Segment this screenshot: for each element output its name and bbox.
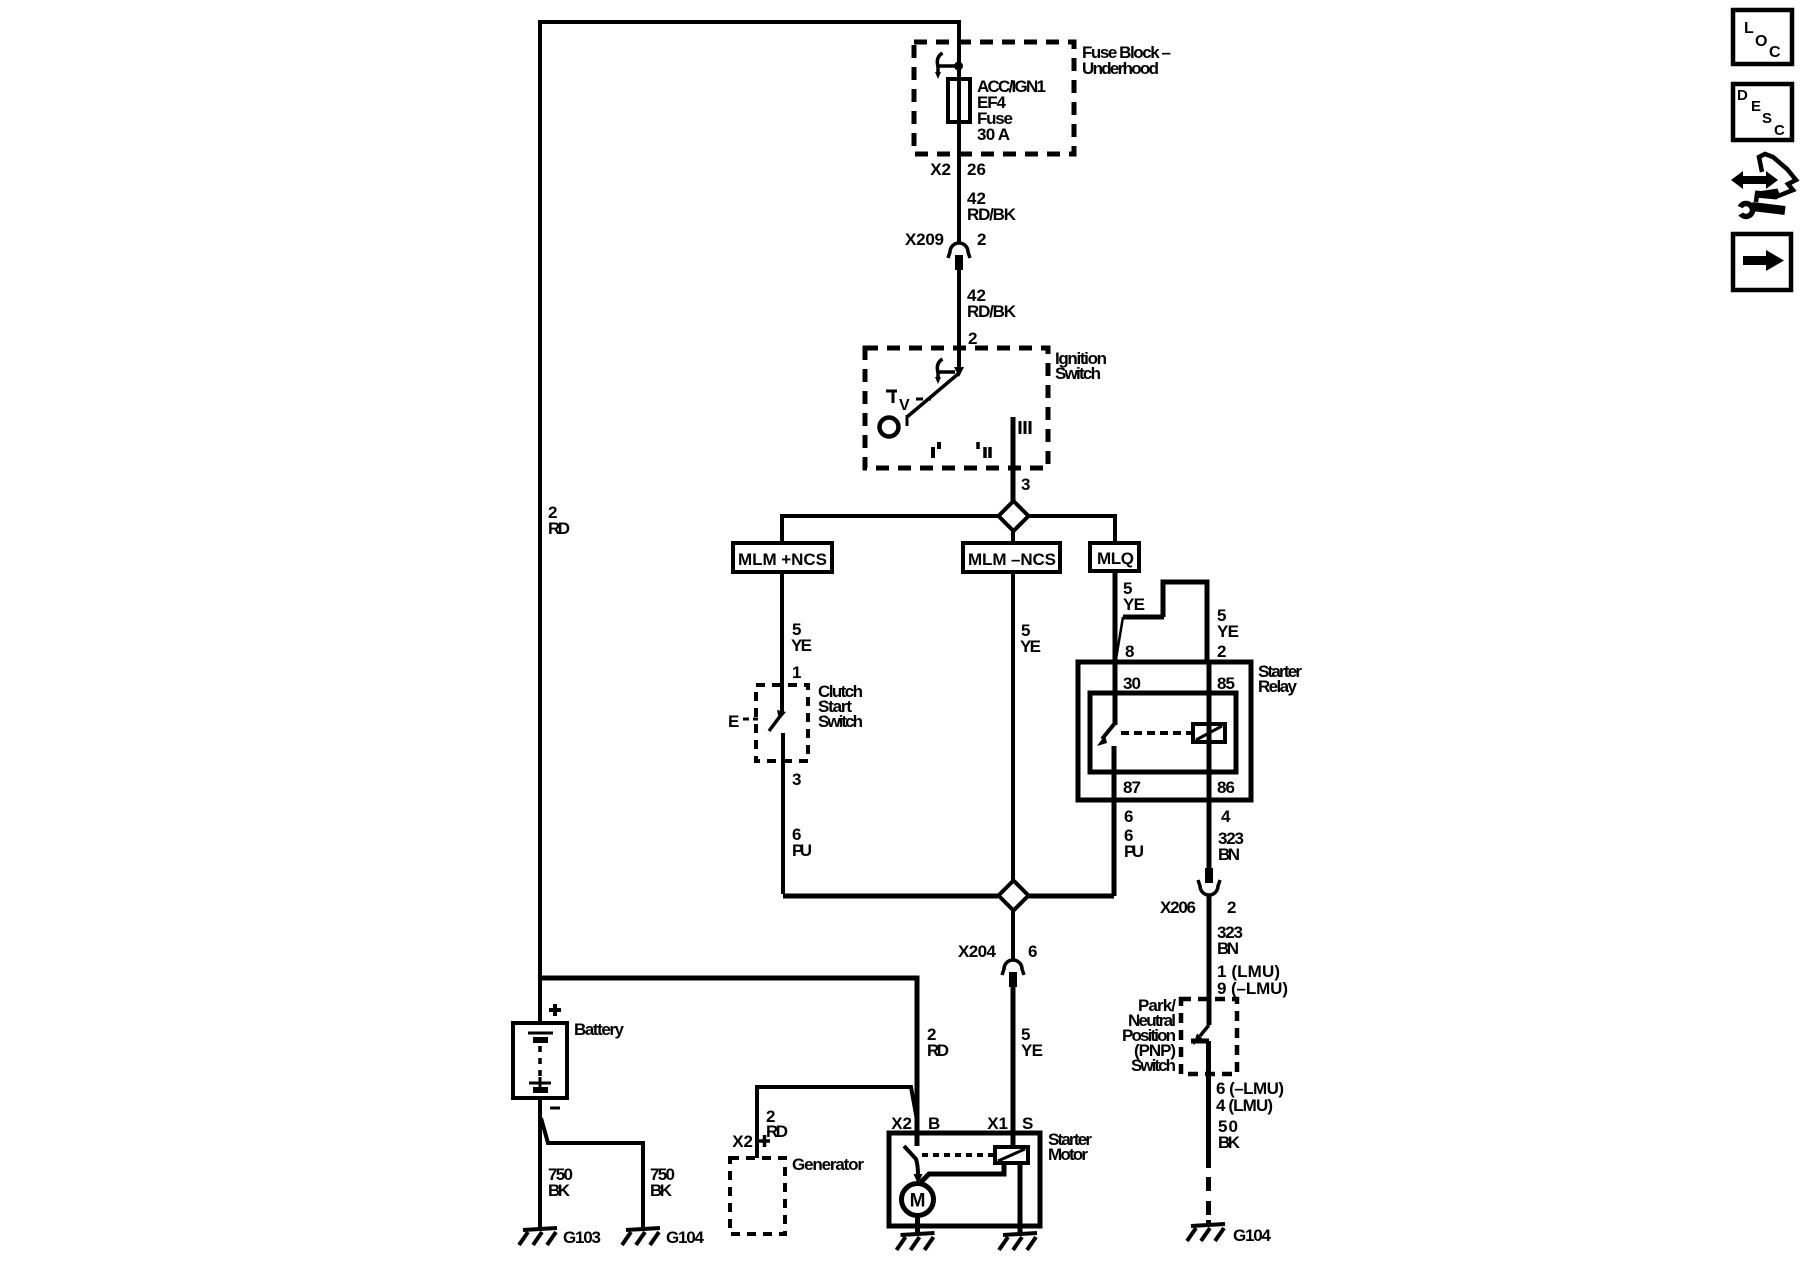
ignition position IV mark <box>886 391 897 403</box>
ground G104 right <box>1187 1224 1225 1241</box>
starter motor pin labels X2 B X1 S <box>891 1114 1033 1133</box>
svg-text:Generator: Generator <box>792 1155 864 1174</box>
wire 5 YE from MLM -NCS down <box>1011 572 1015 880</box>
connector box MLM +NCS <box>733 543 832 572</box>
relay mechanical dashed link <box>1121 731 1191 735</box>
svg-text:4: 4 <box>1221 807 1231 826</box>
ignition switch blade arrowhead <box>954 367 964 377</box>
label 50 BK <box>1218 1117 1241 1152</box>
relay coil slash <box>1196 726 1222 740</box>
svg-text:Relay: Relay <box>1258 677 1298 696</box>
label 5 YE starter <box>1021 1025 1043 1060</box>
svg-text:YE: YE <box>791 636 812 655</box>
splice diamond S2 <box>999 881 1029 911</box>
svg-text:9 (–LMU): 9 (–LMU) <box>1217 979 1288 998</box>
PNP switch top pin <box>1207 999 1212 1025</box>
svg-text:BK: BK <box>548 1181 571 1200</box>
wire 2 RD battery to starter B <box>540 978 917 1133</box>
starter solenoid blade <box>904 1146 918 1175</box>
svg-text:PU: PU <box>1124 842 1144 861</box>
ground G104 left <box>622 1228 660 1245</box>
wire 42 RD/BK drop into fuse block <box>957 20 961 243</box>
svg-text:RD/BK: RD/BK <box>967 205 1017 224</box>
svg-text:4 (LMU): 4 (LMU) <box>1216 1096 1273 1115</box>
PNP bottom contact <box>1191 1041 1209 1168</box>
junction dot fuse block clip <box>954 62 963 71</box>
label 2 RD starter feed <box>927 1025 949 1060</box>
wire 323 BN to PNP switch <box>1207 895 1212 999</box>
relay switch blade <box>1102 723 1115 739</box>
wire step horizontal to junction <box>1123 615 1164 620</box>
svg-text:MLQ: MLQ <box>1097 549 1134 568</box>
starter contact arm <box>921 1163 1004 1182</box>
svg-text:X2: X2 <box>891 1114 912 1133</box>
svg-text:C: C <box>1769 44 1781 61</box>
ignition switch blade <box>907 374 958 417</box>
icon arrow box <box>1733 234 1791 290</box>
icon electrical repair bottom bar <box>1755 194 1777 196</box>
starter blade arrowhead <box>914 1174 923 1184</box>
label Starter Motor <box>1048 1130 1092 1164</box>
svg-text:E: E <box>1751 98 1761 115</box>
icon DESC box <box>1733 84 1792 140</box>
svg-text:Switch: Switch <box>818 712 863 731</box>
wire 42 RD/BK to ignition switch <box>957 270 961 371</box>
wire top horizontal feed <box>538 20 959 24</box>
label 323 BN relay <box>1218 829 1244 864</box>
label 750 BK left <box>548 1165 573 1200</box>
svg-text:Underhood: Underhood <box>1082 59 1159 78</box>
PNP switch blade <box>1200 1025 1209 1036</box>
connector box MLM -NCS <box>963 543 1060 572</box>
ignition switch blade end stub <box>906 415 909 426</box>
generator dashed box <box>730 1158 785 1234</box>
svg-text:G103: G103 <box>563 1228 601 1247</box>
ground starter motor left <box>897 1233 935 1250</box>
battery internal plates <box>528 1033 553 1090</box>
ignition position I tick <box>933 442 939 458</box>
svg-text:26: 26 <box>967 160 986 179</box>
svg-text:3: 3 <box>1021 475 1030 494</box>
svg-text:E: E <box>728 712 739 731</box>
relay coil box <box>1193 724 1225 742</box>
svg-text:6: 6 <box>1028 942 1037 961</box>
ignition switch pivot circle <box>880 418 899 437</box>
svg-text:BN: BN <box>1218 845 1240 864</box>
svg-text:X206: X206 <box>1160 898 1196 917</box>
svg-text:V: V <box>899 397 910 414</box>
wire 5 YE from MLQ to relay pin 30 <box>1113 571 1118 725</box>
wire 2 RD generator output <box>757 1087 917 1158</box>
fuse ACC/IGN1 EF4 30A <box>948 79 970 122</box>
starter solenoid coil slash <box>998 1149 1025 1161</box>
label Ignition Switch <box>1055 349 1107 383</box>
label 6 PU clutch <box>792 825 812 860</box>
clutch start switch dashed box <box>756 685 808 761</box>
svg-text:X204: X204 <box>958 942 997 961</box>
icon DESC letters <box>1737 87 1785 139</box>
svg-text:X1: X1 <box>987 1114 1008 1133</box>
clutch switch blade <box>769 715 781 731</box>
park neutral position switch dashed box <box>1181 999 1237 1074</box>
wire 50 BK dashed to ground <box>1206 1177 1211 1224</box>
connector clip in fuse block <box>935 53 957 79</box>
label Park/Neutral Position (PNP) Switch <box>1122 996 1176 1075</box>
svg-text:30: 30 <box>1123 674 1141 693</box>
wire S1 to MLM -NCS <box>1011 531 1015 543</box>
svg-text:C: C <box>1774 122 1785 139</box>
icon right arrow <box>1743 250 1784 271</box>
svg-text:Switch: Switch <box>1131 1056 1176 1075</box>
label 42 RD/BK upper <box>967 189 1017 224</box>
svg-text:S: S <box>1022 1114 1033 1133</box>
connector X209 symbol <box>948 243 970 270</box>
icon LOC letters <box>1744 20 1781 61</box>
icon electrical repair wrench <box>1733 204 1785 219</box>
svg-text:PU: PU <box>792 841 812 860</box>
svg-text:85: 85 <box>1217 674 1235 693</box>
wire relay pin 87 down to bus <box>1112 746 1117 896</box>
ground G103 <box>519 1228 557 1245</box>
svg-text:3: 3 <box>792 770 801 789</box>
starter motor M circle <box>902 1184 934 1216</box>
clutch switch bottom pin wire 6 PU <box>781 733 785 894</box>
label Clutch Start Switch <box>818 682 863 731</box>
starter relay outer box <box>1078 662 1251 800</box>
svg-text:RD: RD <box>548 519 570 538</box>
svg-text:8: 8 <box>1125 642 1134 661</box>
pin label 1 (LMU) 9 (-LMU) <box>1217 962 1288 998</box>
label 5 YE mid <box>1020 621 1041 656</box>
svg-text:Switch: Switch <box>1055 364 1101 383</box>
wire ignition output pin 3 <box>1011 417 1016 501</box>
starter relay inner box <box>1090 693 1236 772</box>
label 5 YE clutch <box>791 620 812 655</box>
svg-text:RD: RD <box>766 1122 788 1141</box>
svg-text:YE: YE <box>1123 595 1145 614</box>
wire 5 YE from MLM +NCS to clutch start switch <box>780 572 784 685</box>
wire battery positive feed left vertical <box>538 22 542 1023</box>
wire solenoid to ground <box>1018 1163 1023 1233</box>
starter mechanical dashed link <box>922 1153 994 1157</box>
svg-text:87: 87 <box>1123 778 1141 797</box>
svg-text:MLM +NCS: MLM +NCS <box>738 550 827 569</box>
wire bus left to MLM +NCS <box>782 516 998 543</box>
connector X204 label and pin 6 <box>958 942 1037 961</box>
svg-text:M: M <box>910 1191 926 1212</box>
wire 5 YE to starter S terminal <box>1011 987 1016 1147</box>
svg-text:Motor: Motor <box>1048 1145 1088 1164</box>
starter B terminal pin <box>915 1133 920 1146</box>
wire branch to G104 <box>541 1118 643 1228</box>
svg-text:O: O <box>1755 33 1767 50</box>
label Fuse Block Underhood <box>1082 43 1171 78</box>
svg-text:2: 2 <box>977 230 986 249</box>
ignition position II ticks <box>978 442 990 458</box>
ignition position III bars <box>1020 421 1030 434</box>
splice diamond S1 <box>999 501 1029 531</box>
wire relay pin 85 to 86 through coil <box>1207 662 1212 800</box>
svg-text:S: S <box>1762 110 1772 127</box>
connector clip in ignition switch <box>935 359 955 384</box>
starter motor box <box>889 1133 1040 1226</box>
svg-text:B: B <box>928 1114 940 1133</box>
svg-text:BN: BN <box>1217 939 1239 958</box>
connector X204 symbol <box>1002 960 1024 987</box>
svg-text:1: 1 <box>792 663 801 682</box>
pin label X2 26 <box>930 160 986 179</box>
svg-text:X209: X209 <box>905 230 944 249</box>
svg-text:BK: BK <box>650 1181 673 1200</box>
icon LOC box <box>1733 10 1792 64</box>
starter solenoid coil box <box>995 1147 1028 1163</box>
connector X206 label and pin 2 <box>1160 898 1236 917</box>
label 2 RD left feed <box>548 503 570 538</box>
svg-text:G104: G104 <box>666 1228 705 1247</box>
connector X209 label and pin 2 <box>905 230 986 249</box>
wire 5 YE step to relay pin 85 <box>1163 582 1207 662</box>
svg-text:2: 2 <box>968 329 977 348</box>
wire battery negative to G103 <box>538 1098 542 1228</box>
icon electrical repair outline shape <box>1756 154 1796 202</box>
relay blade arrowhead <box>1097 735 1107 746</box>
label 323 BN lower <box>1217 923 1243 958</box>
label 750 BK right <box>650 1165 675 1200</box>
battery plus sign <box>549 1004 561 1016</box>
battery box <box>513 1023 567 1098</box>
svg-text:30 A: 30 A <box>977 125 1010 144</box>
ignition switch dashed box <box>865 348 1048 468</box>
label 42 RD/BK lower <box>967 286 1017 321</box>
wire motor to ground <box>915 1216 920 1233</box>
connector X206 symbol <box>1198 868 1220 895</box>
icon electrical repair double arrow <box>1731 171 1778 189</box>
clutch switch top pin <box>780 685 784 713</box>
svg-text:X2: X2 <box>732 1132 753 1151</box>
E dashed link <box>743 718 758 721</box>
pin label 6 (-LMU) 4 (LMU) <box>1216 1079 1284 1115</box>
label 6 PU relay <box>1124 826 1144 861</box>
wire S2 down to X204 <box>1011 910 1015 959</box>
svg-text:Battery: Battery <box>574 1020 625 1039</box>
ignition position V text and dashes <box>899 397 910 414</box>
fuse block underhood dashed box <box>914 42 1074 154</box>
svg-text:2: 2 <box>1227 898 1236 917</box>
svg-text:YE: YE <box>1020 637 1041 656</box>
PNP blade arrowhead <box>1193 1034 1204 1046</box>
wire step diagonal join <box>1116 617 1123 659</box>
svg-text:RD/BK: RD/BK <box>967 302 1017 321</box>
label 2 RD generator <box>766 1107 788 1141</box>
svg-text:YE: YE <box>1217 622 1239 641</box>
wire bottom bus right <box>1029 894 1114 899</box>
svg-text:G104: G104 <box>1233 1226 1272 1245</box>
svg-text:D: D <box>1737 87 1748 104</box>
label 5 YE MLQ <box>1123 579 1145 614</box>
svg-text:YE: YE <box>1021 1041 1043 1060</box>
svg-text:X2: X2 <box>930 160 951 179</box>
wire bottom bus left <box>783 894 998 899</box>
label Starter Relay <box>1258 662 1302 696</box>
clutch switch blade arrowhead <box>777 710 786 720</box>
svg-text:2: 2 <box>1217 642 1226 661</box>
svg-text:86: 86 <box>1217 778 1235 797</box>
svg-text:L: L <box>1744 20 1754 37</box>
label ACC/IGN1 EF4 Fuse 30 A <box>977 77 1046 144</box>
generator pin label X2 + <box>732 1132 753 1151</box>
wire bus right to MLQ <box>1029 516 1115 543</box>
label 5 YE step <box>1217 606 1239 641</box>
svg-text:BK: BK <box>1218 1133 1241 1152</box>
svg-text:RD: RD <box>927 1041 949 1060</box>
battery minus sign <box>550 1107 560 1110</box>
wire 323 BN relay 86 to X206 <box>1207 800 1212 868</box>
svg-text:MLM –NCS: MLM –NCS <box>968 550 1056 569</box>
ground starter motor right <box>999 1233 1037 1250</box>
svg-text:6: 6 <box>1124 807 1133 826</box>
connector box MLQ <box>1090 543 1139 571</box>
